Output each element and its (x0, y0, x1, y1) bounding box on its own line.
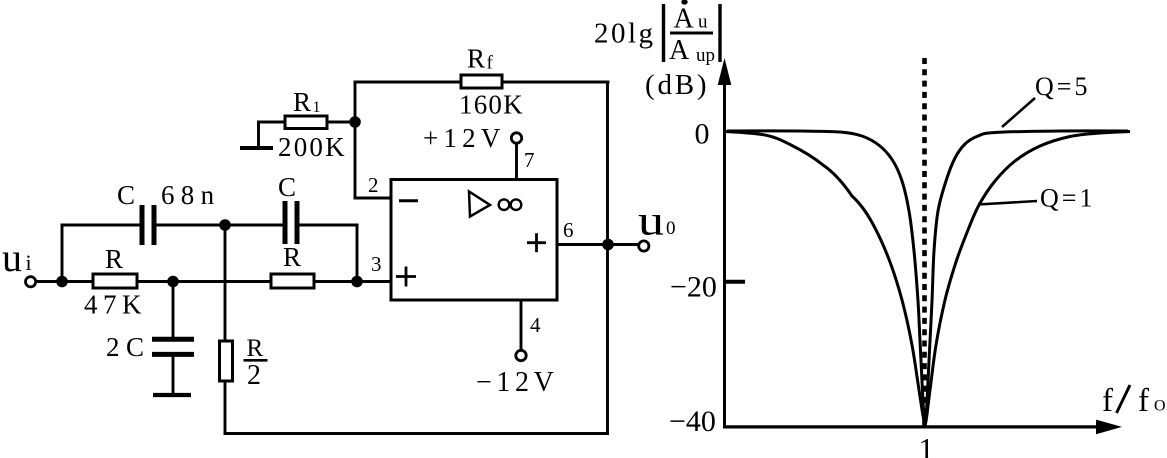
svg-text:200K: 200K (278, 132, 347, 162)
svg-text:160K: 160K (459, 90, 524, 120)
svg-text:20lg: 20lg (594, 18, 656, 50)
svg-text:A: A (674, 4, 695, 35)
svg-text:u: u (638, 199, 664, 245)
svg-text:−40: −40 (669, 405, 716, 438)
svg-text:i: i (26, 250, 32, 275)
svg-text:1: 1 (919, 431, 935, 458)
svg-text:+12V: +12V (423, 123, 506, 153)
svg-text:2: 2 (368, 173, 379, 197)
svg-text:Q=5: Q=5 (1035, 72, 1090, 101)
svg-text:7: 7 (524, 148, 535, 172)
svg-text:0: 0 (695, 118, 710, 151)
svg-text:u: u (2, 235, 22, 280)
svg-text:6: 6 (563, 218, 574, 242)
svg-text:R: R (247, 335, 264, 362)
svg-text:47K: 47K (84, 290, 147, 320)
svg-text:(dB): (dB) (645, 69, 709, 101)
svg-text:R: R (283, 242, 301, 272)
svg-text:−20: −20 (670, 271, 717, 304)
svg-text:O: O (1154, 398, 1166, 415)
svg-text:4: 4 (530, 313, 541, 337)
svg-text:A: A (669, 35, 690, 66)
svg-text:2C: 2C (106, 332, 151, 362)
svg-text:2: 2 (247, 360, 261, 391)
svg-text:Q=1: Q=1 (1040, 184, 1095, 213)
svg-text:0: 0 (666, 218, 676, 239)
svg-text:−12V: −12V (476, 367, 558, 398)
svg-text:68n: 68n (161, 180, 220, 210)
svg-text:3: 3 (371, 252, 382, 276)
svg-text:u: u (698, 12, 708, 33)
svg-text:up: up (696, 45, 715, 66)
svg-text:C: C (117, 180, 135, 210)
svg-text:R: R (105, 244, 123, 274)
svg-text:C: C (278, 172, 296, 202)
